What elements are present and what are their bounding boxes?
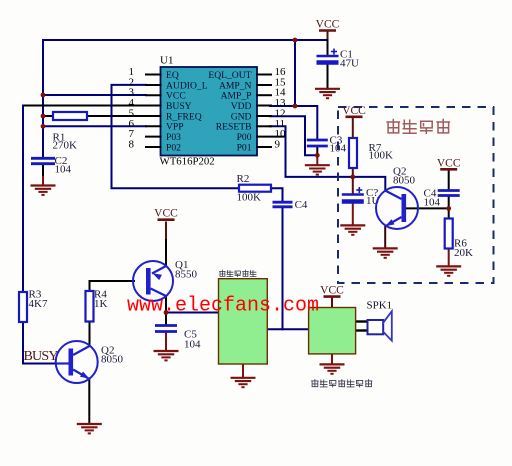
svg-text:VCC: VCC xyxy=(437,157,461,169)
svg-text:1K: 1K xyxy=(94,298,108,310)
svg-text:4K7: 4K7 xyxy=(29,298,48,310)
svg-text:VDD: VDD xyxy=(231,101,252,112)
svg-text:20K: 20K xyxy=(454,247,473,259)
svg-text:C4: C4 xyxy=(295,199,308,211)
svg-text:WT616P202: WT616P202 xyxy=(160,156,215,168)
svg-text:47U: 47U xyxy=(340,58,359,70)
svg-text:BUSY: BUSY xyxy=(166,101,192,112)
svg-text:VCC: VCC xyxy=(342,105,366,117)
svg-text:U1: U1 xyxy=(160,55,173,67)
svg-text:P03: P03 xyxy=(166,132,181,143)
svg-text:P00: P00 xyxy=(237,132,252,143)
svg-text:P02: P02 xyxy=(166,142,181,153)
svg-text:8550: 8550 xyxy=(175,269,198,281)
svg-text:8: 8 xyxy=(129,139,135,151)
svg-text:100K: 100K xyxy=(237,192,262,204)
svg-text:9: 9 xyxy=(275,139,281,151)
svg-text:8050: 8050 xyxy=(101,354,124,366)
svg-text:EQL_OUT: EQL_OUT xyxy=(208,70,251,81)
svg-text:www.elecfans.com: www.elecfans.com xyxy=(127,295,319,318)
svg-text:P01: P01 xyxy=(237,142,252,153)
svg-text:VCC: VCC xyxy=(320,285,344,297)
svg-text:VCC: VCC xyxy=(316,19,340,31)
svg-text:8050: 8050 xyxy=(393,175,416,187)
svg-text:BUSY: BUSY xyxy=(24,349,59,364)
svg-text:104: 104 xyxy=(184,339,201,351)
svg-text:EQ: EQ xyxy=(166,70,179,81)
svg-text:VCC: VCC xyxy=(154,208,178,220)
svg-text:100K: 100K xyxy=(369,150,394,162)
svg-text:R2: R2 xyxy=(237,173,250,185)
svg-text:SPK1: SPK1 xyxy=(367,299,393,311)
svg-text:104: 104 xyxy=(55,164,72,176)
svg-text:104: 104 xyxy=(424,197,441,209)
svg-text:270K: 270K xyxy=(53,140,78,152)
